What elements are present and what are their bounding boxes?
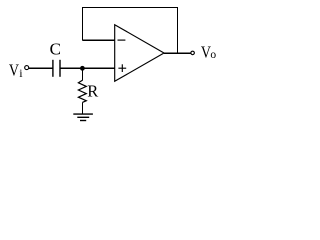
svg-text:V: V [9, 61, 19, 80]
svg-text:C: C [50, 39, 61, 58]
svg-text:i: i [19, 66, 23, 80]
svg-text:R: R [87, 82, 98, 101]
svg-text:o: o [210, 49, 216, 61]
